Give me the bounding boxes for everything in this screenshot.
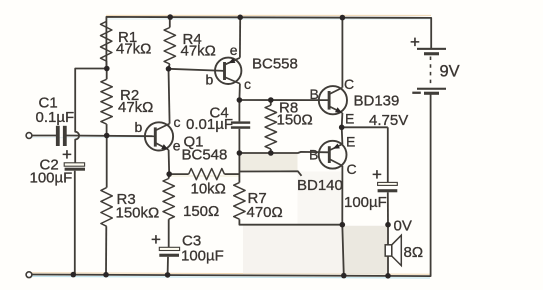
wire BC558 collector down [238,84,241,100]
resistor R8 150R [265,105,276,149]
svg-text:47kΩ: 47kΩ [116,41,151,58]
svg-text:47kΩ: 47kΩ [118,99,153,116]
wire BC558 emitter to +9V rail [239,17,241,58]
svg-text:100µF: 100µF [344,194,387,211]
wire C1 to Q1 base [66,135,155,138]
wire BD140 emitter to output node [341,127,344,144]
wire R1 to junction [105,61,107,69]
wire R8 ends [270,100,272,153]
svg-text:c: c [244,76,251,92]
svg-text:E: E [345,111,354,127]
svg-text:0.1µF: 0.1µF [36,109,75,126]
svg-text:4.75V: 4.75V [369,112,408,129]
resistor R4 47k [164,28,175,65]
wire R4 node to BC558 base [169,69,225,71]
wire R4 to junction [169,17,170,69]
svg-text:10kΩ: 10kΩ [191,181,226,198]
svg-text:C: C [347,161,357,177]
svg-text:150kΩ: 150kΩ [116,205,160,222]
capacitor C3 [151,230,224,265]
wire node chain to R7 [238,153,240,183]
svg-text:9V: 9V [440,63,460,81]
label 0V [394,218,412,235]
svg-text:C: C [344,76,354,92]
wire C2 to ground rail [74,171,76,275]
svg-text:e: e [230,42,238,58]
wire Q1 emitter down [168,150,171,174]
capacitor C2 [30,145,86,186]
svg-text:+: + [62,145,72,164]
svg-text:8Ω: 8Ω [404,244,424,261]
wire 10k to node [169,173,239,175]
wire R7 bottom to 0V line [239,219,342,225]
svg-text:47kΩ: 47kΩ [181,43,216,60]
speaker 8R [385,235,423,265]
wire Q1 collector up to R4 node [169,69,170,124]
resistor 150R emitter [163,179,174,220]
wire base node to R3 [106,136,108,188]
capacitor C5 100uF output [344,165,397,211]
capacitor C4 [186,105,250,134]
wire C3 to ground rail [167,257,169,275]
wire R1/R2 junction to C2 (with hop) [75,69,107,163]
wire 0V node to speaker [387,225,389,245]
wire BD140 collector to ground [342,166,344,276]
wire node stub right [239,171,301,176]
svg-text:BC558: BC558 [252,56,298,73]
wire BD139 collector to +9V rail [341,18,343,88]
wire C5 to 0V node [387,192,389,224]
svg-text:0.01µF: 0.01µF [186,116,233,133]
input terminal top [26,133,32,139]
label 4.75V [369,112,408,129]
svg-text:E: E [346,134,355,150]
svg-text:b: b [135,119,143,135]
transistor Q1 BC548 [135,114,228,164]
svg-text:BD140: BD140 [297,177,343,194]
capacitor C1 [36,95,75,147]
wire R3 to ground rail [105,226,107,274]
svg-text:B: B [310,86,319,102]
svg-text:150Ω: 150Ω [183,203,219,220]
wire speaker to ground rail [387,256,389,276]
svg-text:e: e [173,138,181,154]
transistor BC558 [206,42,298,92]
resistor R3 150k [101,188,112,227]
resistor R7 470R [234,183,245,220]
svg-text:+: + [151,230,161,249]
svg-text:+: + [372,165,382,184]
wire output node to C5 [387,127,389,182]
svg-text:100µF: 100µF [181,248,224,265]
transistor BD140 [297,134,357,195]
svg-text:b: b [206,72,214,88]
resistor R2 47k [101,79,112,124]
wire BD139 base line [239,99,329,101]
svg-text:BC548: BC548 [182,147,228,164]
battery 9V [410,33,460,95]
svg-text:0V: 0V [394,218,412,235]
wire top +9V rail [106,17,431,71]
svg-text:B: B [309,147,318,163]
wire bottom 0V rail [32,93,431,276]
wire node to C4 [238,100,240,121]
svg-text:150Ω: 150Ω [277,112,313,129]
wire 150R to C3 [168,219,170,247]
wire output node 4.75V [342,126,388,128]
wire C4 to BD140 base node [238,129,240,153]
wire BD140 base line [239,152,329,153]
svg-text:BD139: BD139 [354,93,400,110]
svg-text:470Ω: 470Ω [247,204,283,221]
resistor 10k feedback [189,169,225,180]
wire R2 ends [106,69,108,136]
svg-text:100µF: 100µF [30,169,73,186]
input terminal bottom [26,272,32,278]
transistor BD139 [310,76,400,127]
wire emitter node to 150R [168,174,171,178]
wire input to C1 [32,135,56,137]
resistor R1 47k [101,22,112,62]
svg-text:c: c [174,114,181,130]
wire BD139 emitter to output node [341,113,344,127]
